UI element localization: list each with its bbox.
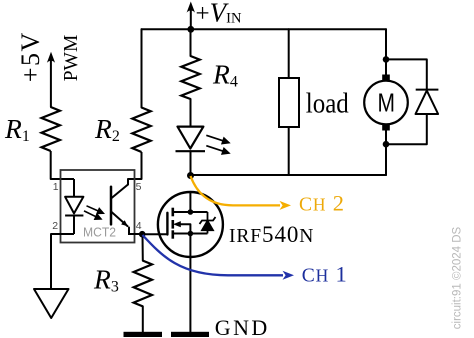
wire source to GND — [189, 257, 191, 332]
opto light arrows — [84, 206, 103, 219]
MOSFET gate bar — [166, 213, 168, 235]
MOSFET body diode (zener) — [200, 212, 216, 234]
svg-text:+5V: +5V — [16, 31, 45, 82]
flyback diode D2 — [386, 59, 438, 144]
resistor R4 — [181, 56, 199, 99]
wire R1 bottom to opto pin1 — [51, 151, 74, 179]
motor M1 brushes — [382, 75, 390, 81]
resistor R1 — [42, 107, 60, 151]
MOSFET internal dots — [188, 209, 194, 215]
wire motor bottom — [385, 131, 387, 176]
svg-text:PWM: PWM — [61, 35, 82, 82]
svg-text:+VIN: +VIN — [196, 0, 242, 28]
svg-text:R1: R1 — [4, 113, 30, 145]
svg-text:CH 2: CH 2 — [299, 191, 345, 216]
svg-text:4: 4 — [136, 220, 142, 232]
wire top rail +VIN — [142, 28, 387, 30]
wire R2 top drop — [141, 29, 143, 107]
svg-text:MCT2: MCT2 — [83, 224, 116, 239]
svg-text:5: 5 — [136, 181, 142, 193]
wire R4 top — [190, 29, 192, 56]
wire pin2 stub — [51, 234, 74, 289]
opto LED — [65, 179, 83, 234]
ground triangle (opto input) — [34, 289, 69, 318]
node junction dot VIN rail — [187, 26, 194, 33]
ground bar (source) — [171, 332, 209, 337]
wire pin4 to R3 — [142, 234, 144, 260]
VIN arrowhead — [187, 2, 195, 13]
resistor R3 — [134, 261, 152, 307]
svg-text:IRF540N: IRF540N — [229, 222, 314, 247]
wire R4 to LED — [190, 99, 192, 127]
svg-text:circuit:91 ©2024 DS: circuit:91 ©2024 DS — [452, 226, 464, 329]
wire motor branch top — [385, 29, 387, 76]
node diode top dot — [383, 56, 390, 63]
svg-text:2: 2 — [52, 220, 58, 232]
svg-text:GND: GND — [215, 315, 270, 338]
node diode bottom dot — [383, 141, 390, 148]
wire R2 bottom to opto pin5 — [128, 152, 142, 179]
node pin4 gate dot — [139, 231, 146, 238]
MOSFET internal drain/source rails — [173, 192, 208, 257]
ground bar (R3) — [124, 332, 163, 337]
wire R3 to GND — [142, 306, 144, 332]
node drain junction dot — [187, 172, 194, 179]
svg-text:M: M — [378, 87, 396, 117]
wire LED to drain node — [190, 151, 192, 175]
opto phototransistor — [111, 179, 142, 234]
svg-text:CH 1: CH 1 — [302, 262, 348, 287]
LED light arrows — [206, 135, 229, 154]
wire load branch top — [288, 29, 290, 78]
svg-text:R4: R4 — [212, 59, 238, 91]
motor M1 body — [364, 81, 408, 125]
MOSFET channel segments — [172, 208, 175, 239]
svg-text:R3: R3 — [93, 264, 119, 296]
optocoupler U1 box — [61, 170, 135, 243]
svg-text:R2: R2 — [94, 113, 120, 145]
wire load branch bottom — [288, 127, 290, 175]
MOSFET Q1 body circle — [158, 192, 223, 257]
load box — [279, 78, 299, 127]
svg-text:1: 1 — [53, 181, 59, 193]
LED D1 indicator — [176, 127, 206, 152]
CH1 probe curve (blue) — [143, 235, 284, 275]
wire VIN arrow stem — [190, 9, 192, 29]
+5V supply arrow — [50, 60, 52, 107]
wire bottom rail (drain to load/motor) — [191, 174, 387, 176]
CH2 probe curve (orange) — [191, 176, 281, 205]
resistor R2 — [132, 108, 150, 153]
wire gate lead — [142, 233, 167, 235]
svg-text:load: load — [306, 89, 349, 120]
MOSFET bulk arrow — [173, 221, 181, 227]
